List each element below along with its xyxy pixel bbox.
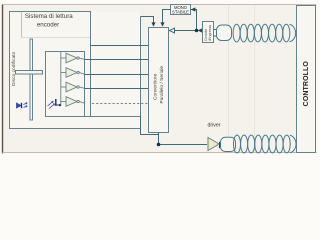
figure frame interior: [3, 4, 317, 153]
data line bit 1: [85, 59, 149, 61]
box: CONTROLLO: [297, 6, 316, 153]
wire: mono stabile output to converter clock: [163, 10, 171, 24]
scan artifact vertical line 1: [228, 4, 230, 153]
bottom twisted-pair coil: [233, 135, 296, 153]
scan artifact vertical line 2: [254, 4, 256, 153]
svg-text:driver: driver: [208, 123, 221, 129]
junction dot sync node: [195, 29, 198, 32]
arrowhead down into converter (left): [151, 22, 155, 26]
driver line amplifier triangle: [208, 138, 219, 151]
svg-text:encoder: encoder: [37, 22, 59, 29]
top twisted-pair coil: [233, 24, 296, 42]
motor shaft bar: [16, 71, 43, 75]
coded disc (edge-on bar): [30, 39, 33, 120]
frame left edge: [2, 5, 4, 154]
svg-text:STABILE: STABILE: [172, 9, 189, 14]
svg-text:Sistema di lettura: Sistema di lettura: [25, 13, 73, 20]
data line bit 3: [85, 88, 149, 90]
bottom cable end cap: [221, 137, 236, 151]
svg-text:Convertitore: Convertitore: [153, 74, 159, 100]
title box faint bottom edge: [22, 37, 91, 39]
arrowhead left on sync output: [198, 28, 202, 32]
photodetector box: [46, 52, 85, 117]
svg-text:d'ingresso: d'ingresso: [208, 25, 212, 41]
comparator A3: [61, 82, 85, 92]
box: Circuito d'ingresso (sync receiver): [203, 22, 214, 43]
page background: [0, 0, 319, 158]
svg-text:CONTROLLO: CONTROLLO: [303, 61, 310, 107]
partition bottom line: [46, 116, 141, 118]
wire: sistema box to converter clock: [141, 17, 154, 24]
arrowhead down into converter (right): [160, 22, 164, 26]
partition line inside sistema box: [90, 12, 92, 117]
junction dot serial node: [157, 143, 161, 147]
wire: sync line to converter: [170, 30, 203, 32]
data line bit 0: [91, 45, 149, 47]
title box faint left edge: [21, 12, 23, 38]
comparator A4: [61, 97, 85, 107]
open arrowhead left into converter: [169, 28, 174, 33]
phototransistor (blue): [48, 99, 62, 109]
wire: converter serial output: [159, 133, 208, 145]
LED emitter (blue): [17, 103, 28, 108]
svg-text:Disco codificato: Disco codificato: [11, 51, 17, 86]
box: MONO STABILE: [171, 5, 191, 15]
arrowhead left into mono stabile: [191, 7, 196, 11]
comparator A1: [61, 53, 85, 63]
arrowhead right after driver: [219, 142, 224, 149]
box: Sistema di lettura encoder (outer, open at top-right): [10, 12, 141, 129]
wire: sync to mono stabile: [191, 10, 197, 31]
frame bottom edge: [3, 152, 317, 154]
top cable end cap: [217, 25, 232, 41]
comparator input rail: [60, 52, 62, 106]
twisted pair wires from sync box: [214, 29, 219, 31]
svg-text:Parallelo / Seriale: Parallelo / Seriale: [159, 66, 165, 104]
comparator A2: [61, 68, 85, 78]
data line bit 2: [85, 74, 149, 76]
frame top edge: [3, 4, 317, 6]
wire: detector frame to serial line: [141, 117, 159, 135]
box: Convertitore Parallelo/Seriale: [149, 28, 169, 133]
data line bit n (dashed): [92, 103, 149, 105]
